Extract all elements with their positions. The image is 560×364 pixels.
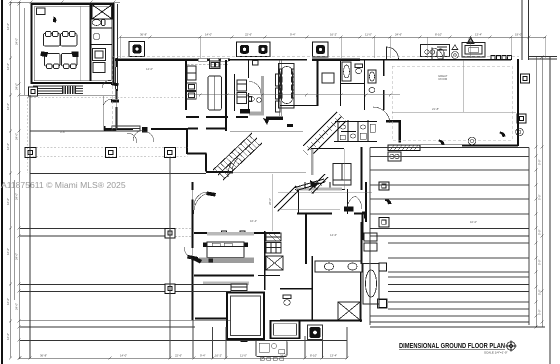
generator warning triangle <box>467 37 474 43</box>
long beam pair 1 <box>20 229 529 237</box>
master door leaf dark 2 <box>187 255 198 261</box>
svg-text:5'-0": 5'-0" <box>538 289 542 295</box>
svg-text:5'-0": 5'-0" <box>538 259 542 265</box>
den corner diagonal wall <box>309 174 328 194</box>
wall meander vertical 1 <box>186 129 188 154</box>
AC unit box 1 <box>129 42 145 57</box>
gym room walls <box>227 293 264 340</box>
svg-text:13'-4": 13'-4" <box>330 354 337 358</box>
cabana sofa row 2 <box>45 54 78 69</box>
svg-text:12'-6": 12'-6" <box>6 298 10 305</box>
svg-text:21'-8": 21'-8" <box>432 107 439 111</box>
svg-text:9'-4": 9'-4" <box>200 354 206 358</box>
kitchen ovens <box>187 83 197 99</box>
svg-text:12'-6": 12'-6" <box>6 63 10 70</box>
svg-text:A11875611 © Miami MLS® 2025: A11875611 © Miami MLS® 2025 <box>1 180 126 190</box>
china cabinet band <box>276 74 281 112</box>
family door arc <box>133 130 144 141</box>
shelf boxes right of tub <box>378 299 388 308</box>
master door arc 1 <box>194 192 208 205</box>
west door leaf dark <box>111 100 119 103</box>
right dimension line F <box>541 57 543 327</box>
patio step shelf <box>112 126 140 131</box>
west door leaf dark 2 <box>111 82 119 87</box>
SE patio column 2 <box>379 218 389 228</box>
west door swing arc 2 <box>102 80 111 88</box>
stair diagonal rails <box>213 133 262 180</box>
house west wall lower <box>115 107 117 128</box>
yard vertical x322 low <box>322 336 324 358</box>
patio column 2 <box>106 148 117 158</box>
entry niche <box>432 48 444 60</box>
left dimension line D partial <box>24 8 26 95</box>
yard vertical x194 low <box>192 320 194 358</box>
title text <box>399 343 508 354</box>
cabana bath divider <box>91 27 113 29</box>
master south wall <box>194 275 254 277</box>
svg-text:10'-0": 10'-0" <box>470 220 477 224</box>
cabana stair X-brace box <box>92 5 112 20</box>
beam column 2 <box>165 284 175 294</box>
west door swing arc <box>103 99 112 108</box>
east bedroom wing wall <box>365 182 367 222</box>
roof overhang dashed top <box>112 55 519 57</box>
svg-text:24'-0": 24'-0" <box>15 133 19 140</box>
hall walls center <box>248 60 250 111</box>
gray wall band vertical <box>261 76 264 115</box>
svg-text:8'-10": 8'-10" <box>435 33 442 37</box>
svg-text:5'-0": 5'-0" <box>538 159 542 165</box>
right dimension line E <box>535 57 537 327</box>
SE patio column 1 <box>379 182 389 190</box>
svg-text:ROOM: ROOM <box>439 77 448 81</box>
powder toilet <box>249 97 255 102</box>
right border vertical <box>549 57 551 364</box>
svg-text:12'-6": 12'-6" <box>6 143 10 150</box>
bath2 walls <box>340 60 365 110</box>
master window band top <box>207 232 254 236</box>
master shower X <box>338 302 360 320</box>
bath2 tub <box>342 62 351 81</box>
svg-text:5'-0": 5'-0" <box>538 229 542 235</box>
family door arc 2 <box>143 131 154 142</box>
east deck top edge <box>370 147 529 149</box>
east deck right edge <box>528 148 530 326</box>
svg-text:24'-0": 24'-0" <box>15 83 19 90</box>
kitchen upper counter <box>187 66 196 80</box>
gallery hatch <box>303 114 344 155</box>
top dimension line over cabana <box>10 1 120 3</box>
svg-text:22'-6": 22'-6" <box>245 33 252 37</box>
sw meander wall vertical <box>195 318 226 320</box>
svg-text:12'-6": 12'-6" <box>6 198 10 205</box>
svg-text:22'-6": 22'-6" <box>175 354 182 358</box>
svg-text:16'-2": 16'-2" <box>330 33 337 37</box>
east deck board lines <box>370 157 529 317</box>
den top wall <box>311 148 344 150</box>
master wing west wall <box>192 182 194 320</box>
master dark door leaf south <box>192 256 202 264</box>
deck bottom long line <box>20 340 347 342</box>
main top dimension line <box>120 36 546 38</box>
entry door arc top <box>387 47 399 59</box>
patio column 3 <box>165 148 176 158</box>
svg-text:24'-6": 24'-6" <box>395 33 402 37</box>
yard vertical x226 low <box>225 327 227 358</box>
cabana bath mid wall <box>91 44 113 46</box>
cabana interior dim line <box>79 6 81 81</box>
west wall corner bold <box>104 128 116 130</box>
title compass symbol <box>506 341 517 352</box>
master dresser <box>231 284 247 291</box>
bed3 dark corner mark <box>312 183 320 189</box>
long beam pair 2 <box>20 285 529 292</box>
wing south wall <box>206 171 233 173</box>
cabana sink <box>93 33 100 40</box>
mid dimension line y95 <box>186 94 400 96</box>
east wall south segment <box>361 222 363 264</box>
colonnade dashed roof lines <box>27 97 188 173</box>
kitchen west wall <box>185 60 187 110</box>
svg-text:11'-0": 11'-0" <box>240 354 247 358</box>
svg-text:8'-10": 8'-10" <box>310 354 317 358</box>
pantry wall vertical <box>234 74 236 111</box>
svg-text:SCALE 1/4"=1'-0": SCALE 1/4"=1'-0" <box>484 350 508 354</box>
top wall window mullions <box>491 56 512 60</box>
patio column 0 <box>29 87 38 96</box>
stair winder arc <box>232 158 238 174</box>
den left gray band <box>311 148 314 175</box>
sitting diagonal wall <box>274 186 300 212</box>
room2 walls <box>271 321 300 339</box>
fence line top right <box>528 56 557 58</box>
svg-text:24'-0": 24'-0" <box>15 38 19 45</box>
svg-text:11'-0": 11'-0" <box>365 33 372 37</box>
east deck west edge <box>369 148 371 326</box>
pantry shelves <box>237 61 258 104</box>
svg-text:24'-0": 24'-0" <box>15 193 19 200</box>
lanai counter hatched <box>388 145 420 151</box>
cabana porch steps <box>33 86 83 94</box>
master closet shelves <box>266 233 281 253</box>
left yard vertical <box>29 95 31 358</box>
master window band south <box>203 282 249 286</box>
svg-text:12'-6": 12'-6" <box>6 333 10 340</box>
master gray beam band <box>199 258 254 264</box>
family room south wall <box>115 128 133 130</box>
cabana dark chair west <box>41 52 49 58</box>
left dimension line A <box>10 2 12 358</box>
den east wall <box>361 147 363 190</box>
wing dim line <box>278 192 372 194</box>
left dimension line B <box>18 2 20 358</box>
double door arcs center south <box>347 196 362 209</box>
dark corner mud <box>240 109 250 114</box>
great room door dark leaf S <box>439 140 445 146</box>
cabana outer walls <box>32 4 114 83</box>
patio door arc right <box>127 133 137 143</box>
cabana dark wall item <box>53 17 56 23</box>
cabana sofa row 1 <box>44 32 78 47</box>
porch dimension line <box>20 95 117 97</box>
side yard walk lines <box>102 96 104 132</box>
master bath walls <box>280 256 361 322</box>
svg-text:12'-6": 12'-6" <box>6 103 10 110</box>
svg-text:DIMENSIONAL GROUND FLOOR PLAN: DIMENSIONAL GROUND FLOOR PLAN <box>399 343 505 350</box>
kitchen sink box <box>210 61 221 69</box>
bed2 room wall <box>317 60 319 106</box>
roof overhang dashed west <box>111 56 113 130</box>
great room dashed ceiling <box>392 66 512 140</box>
cabana shower <box>93 49 106 61</box>
hall floor edge <box>230 131 303 133</box>
yard vertical x347 low <box>346 327 348 358</box>
master door arc 2 <box>184 247 197 260</box>
cabana dark chair east <box>72 52 79 58</box>
stair treads <box>215 136 260 179</box>
house west wall upper <box>115 58 117 67</box>
AC pad dark square <box>308 325 323 340</box>
fan circle 2 <box>516 128 524 136</box>
master bed top wall <box>194 232 280 234</box>
equipment pad box <box>421 45 450 57</box>
linen boxes <box>364 233 377 251</box>
cabana east fence line <box>117 4 119 91</box>
kitchen counter dashed <box>187 63 228 65</box>
patio edge upper <box>30 130 115 132</box>
great room door dark leaf E <box>500 132 506 138</box>
powder sink <box>257 98 262 103</box>
left dimension line C partial <box>14 180 16 300</box>
bath2 toilet <box>355 64 363 74</box>
wall meander horizontal 1 <box>187 153 207 155</box>
cabana wall cabinet <box>37 8 46 15</box>
svg-text:36'-8": 36'-8" <box>140 33 147 37</box>
svg-text:16'-4": 16'-4" <box>250 219 257 223</box>
SE dark door leaf <box>385 199 392 205</box>
yard vertical x170 <box>169 158 171 359</box>
bottom dimension line <box>19 357 347 359</box>
dining west wall <box>280 60 282 116</box>
svg-text:28'-0": 28'-0" <box>268 198 272 205</box>
foyer dim line <box>233 172 306 174</box>
svg-text:14'-0": 14'-0" <box>120 354 127 358</box>
bath3 fixtures <box>368 70 376 93</box>
nightstand dark marks <box>203 243 207 248</box>
right dim line short1 <box>521 0 523 60</box>
right dim line short2 <box>528 0 530 60</box>
svg-text:24'-6": 24'-6" <box>280 354 287 358</box>
room1 door dark mark <box>241 339 248 342</box>
bed2 room south wall <box>280 105 317 107</box>
family south wall east part <box>151 128 188 130</box>
sitting room walls <box>297 214 366 265</box>
master door arc 1b <box>194 193 208 214</box>
kitchen south wall <box>186 116 248 118</box>
master bed <box>207 242 244 258</box>
generator box <box>462 43 485 58</box>
cabana porch grille <box>62 86 76 95</box>
svg-text:9'-8": 9'-8" <box>60 130 66 134</box>
family door leaf dark <box>142 127 148 133</box>
svg-text:14'-0": 14'-0" <box>205 33 212 37</box>
lanai wall thin <box>402 144 462 146</box>
tub niche columns <box>379 263 387 308</box>
sitting west wall upper <box>298 188 300 214</box>
svg-text:19'-0": 19'-0" <box>515 33 522 37</box>
bed3 window gray band <box>296 188 342 191</box>
gray wall band horizontal <box>249 111 264 115</box>
wc toilet <box>283 295 291 305</box>
beam dashed gap <box>175 229 192 237</box>
beam column 1 <box>165 229 175 239</box>
AC unit box 3 <box>313 42 329 57</box>
den dim vertical <box>344 149 346 190</box>
house west wall mid <box>115 89 117 99</box>
yard vertical x305 low <box>304 336 306 358</box>
cabana toilet <box>92 20 105 26</box>
master wall windows <box>222 231 246 235</box>
svg-text:12'-6": 12'-6" <box>6 248 10 255</box>
sitting shallow diagonal <box>295 179 325 191</box>
foyer arc big <box>373 107 390 123</box>
mud door arc <box>249 82 261 94</box>
master tub <box>363 264 379 305</box>
svg-text:14'-6": 14'-6" <box>330 233 337 237</box>
AC unit box 2 (double) <box>237 42 271 57</box>
svg-text:36'-8": 36'-8" <box>40 354 47 358</box>
house top wall west segment <box>115 58 230 61</box>
bed3 room walls <box>295 182 348 214</box>
deck lower edge right <box>370 321 529 323</box>
central bath cluster <box>334 120 377 142</box>
house east wall <box>517 59 519 146</box>
border heavy left line <box>1 0 3 364</box>
master shower X east <box>266 256 283 270</box>
cabana bath partition wall <box>90 4 92 81</box>
lanai kitchen box <box>388 152 401 161</box>
sitting room dark corner <box>362 212 367 219</box>
great room south wall <box>462 145 518 147</box>
svg-text:16'-2": 16'-2" <box>215 354 222 358</box>
svg-text:24'-0": 24'-0" <box>15 253 19 260</box>
master door leaf dark 1 <box>206 192 216 197</box>
house top wall east segment <box>360 59 511 61</box>
long line pair 3 <box>20 321 545 327</box>
svg-text:5'-0": 5'-0" <box>538 309 542 315</box>
house top wall mid segment <box>230 59 307 61</box>
court dim vertical <box>272 174 274 231</box>
bar room box <box>322 73 334 83</box>
yard tiny texts <box>60 67 477 237</box>
svg-text:5'-0": 5'-0" <box>538 194 542 200</box>
vanity row <box>315 261 362 272</box>
family south wall east segs <box>188 128 226 130</box>
den desk <box>333 164 351 186</box>
great room SW bold L wall <box>386 120 401 143</box>
closet hall wall <box>264 231 266 290</box>
svg-text:24'-0": 24'-0" <box>15 303 19 310</box>
east wall box <box>517 114 526 123</box>
yard vertical x212 low <box>212 327 214 358</box>
foyer wall <box>383 60 385 110</box>
cabana closet box <box>93 63 105 73</box>
center hall small marks <box>263 118 315 187</box>
top wall window sills <box>198 58 228 61</box>
sitting dark block <box>344 207 354 212</box>
hall closet dark wall <box>266 117 283 121</box>
center diagonal gallery wall 1 <box>303 112 346 155</box>
kitchen island <box>208 76 222 110</box>
svg-text:9'-4": 9'-4" <box>290 33 296 37</box>
dining table long <box>279 64 295 109</box>
hose bib symbol <box>452 45 459 58</box>
wall meander vertical 2 <box>205 154 207 172</box>
svg-text:14'-0": 14'-0" <box>146 67 153 71</box>
pool equipment pad <box>256 341 287 361</box>
svg-text:12'-6": 12'-6" <box>6 23 10 30</box>
patio column 1 <box>25 148 36 158</box>
svg-text:13'-4": 13'-4" <box>475 33 482 37</box>
west window band <box>116 67 118 89</box>
NE corner column box <box>521 74 530 83</box>
south wall bottom house <box>280 320 362 322</box>
great room interior dim line <box>392 111 516 113</box>
corridor east wall <box>225 60 227 131</box>
house top wall mid2 segment <box>312 59 360 61</box>
patio edge lower <box>30 173 206 175</box>
fan circle 1 <box>468 137 476 145</box>
